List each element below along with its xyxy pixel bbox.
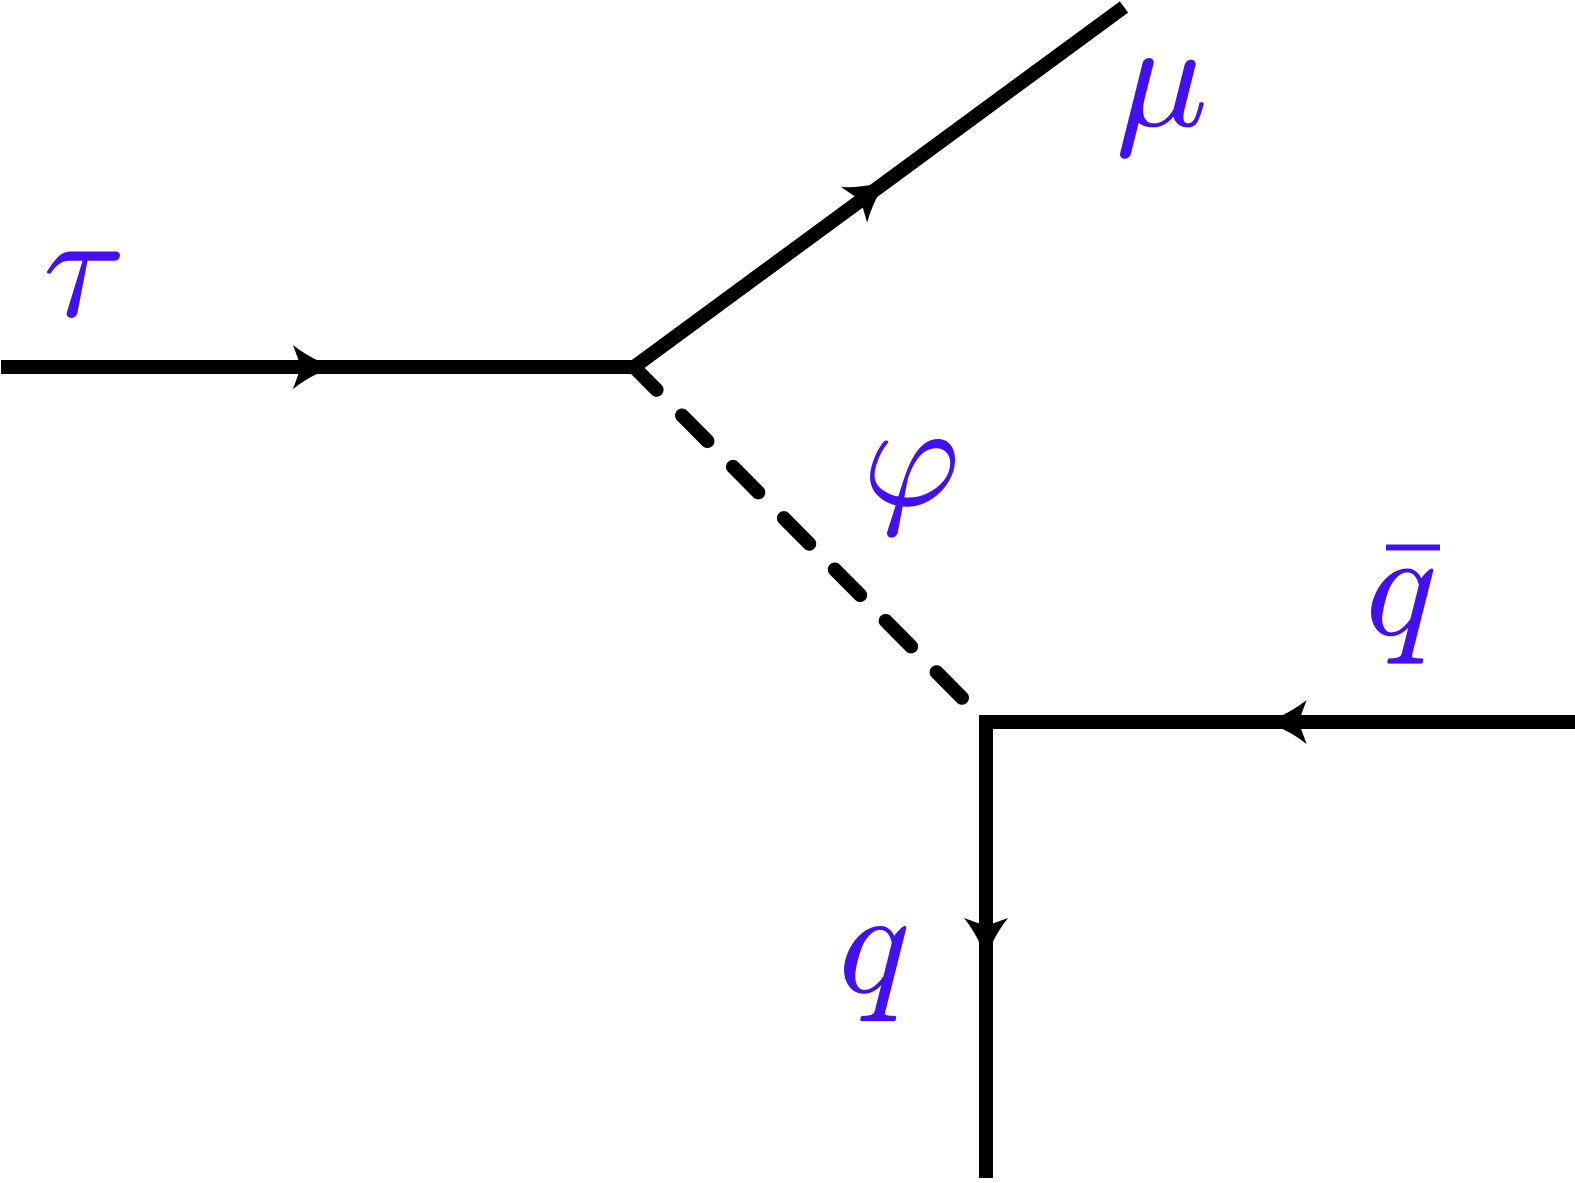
label mu — [1120, 58, 1204, 159]
tau fermion line — [1, 360, 634, 374]
label varphi — [870, 439, 955, 538]
tau arrow — [293, 345, 335, 389]
quark lines qbar horizontal + q vertical — [986, 722, 1575, 1178]
scalar phi dashed propagator — [634, 367, 986, 722]
label q — [844, 926, 906, 1021]
qbar arrow (pointing left) — [1265, 700, 1307, 744]
q arrow (pointing down) — [964, 918, 1008, 960]
label qbar overbar — [1386, 545, 1440, 551]
label qbar glyph q — [1371, 569, 1433, 664]
mu arrow — [841, 162, 901, 222]
mu fermion line — [634, 7, 1124, 367]
label tau — [47, 252, 120, 318]
